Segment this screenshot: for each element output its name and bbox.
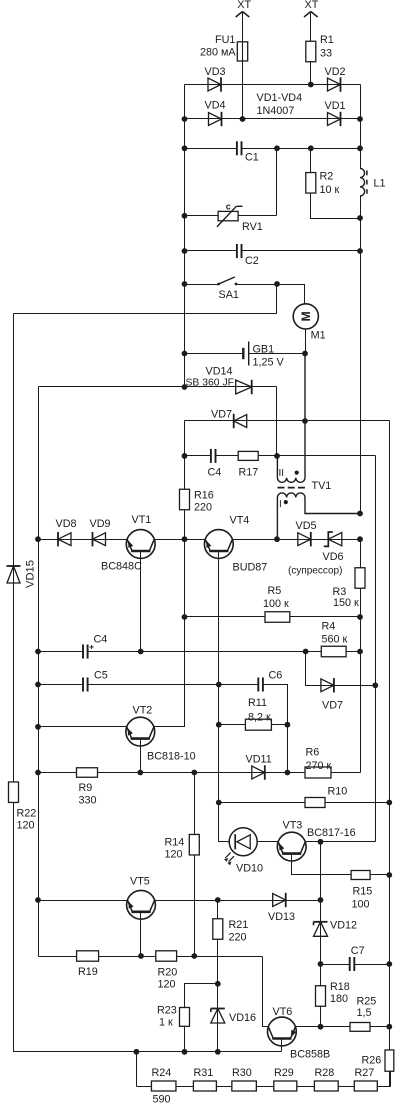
- junction L1 bottom: [357, 215, 363, 221]
- wire R2 bottom lead: [311, 194, 361, 219]
- wire R4 to VD7-2: [306, 652, 376, 686]
- junction FU1-row2: [240, 116, 246, 122]
- transformer TV1 core: [278, 487, 306, 489]
- wire R9 row: [39, 772, 305, 774]
- wire VD14 row: [39, 386, 277, 388]
- svg-text:270 к: 270 к: [306, 760, 332, 772]
- wire C4 row left: [185, 455, 211, 457]
- svg-text:FU1: FU1: [215, 34, 235, 46]
- diode VD16: [211, 1009, 225, 1024]
- svg-text:VT3: VT3: [283, 819, 303, 831]
- transistor VT5: [127, 890, 156, 919]
- svg-text:XT: XT: [305, 0, 319, 11]
- wire VT6 collector: [296, 1026, 321, 1028]
- wire row2: [185, 118, 361, 120]
- resistor R21: [213, 919, 223, 940]
- junction C2 left: [182, 248, 188, 254]
- resistor R20: [156, 951, 177, 961]
- junction R14 top: [191, 770, 197, 776]
- resistor R14: [189, 834, 199, 855]
- junction row2 left rail: [182, 116, 188, 122]
- svg-text:180: 180: [330, 993, 348, 1005]
- svg-text:VD2: VD2: [325, 66, 346, 78]
- resistor R30: [232, 1081, 257, 1091]
- svg-text:VT5: VT5: [130, 875, 150, 887]
- junction VT1 collector rail: [182, 536, 188, 542]
- svg-text:(супрессор): (супрессор): [288, 566, 342, 577]
- svg-text:R4: R4: [322, 620, 336, 632]
- wire right rail 389: [389, 421, 391, 1087]
- junction VT4 base-C6: [216, 682, 222, 688]
- wire R19-R20: [99, 956, 156, 958]
- capacitor C7: [350, 957, 355, 971]
- svg-text:R15: R15: [353, 885, 373, 897]
- junction RV1 left: [182, 213, 188, 219]
- svg-text:120: 120: [165, 848, 183, 860]
- svg-text:GB1: GB1: [253, 343, 275, 355]
- resistor R25: [350, 1023, 370, 1032]
- resistor R31: [193, 1081, 216, 1091]
- wire bottom distribution row: [14, 1051, 282, 1053]
- svg-text:C6: C6: [269, 669, 283, 681]
- wire VT2 collector: [154, 540, 185, 727]
- svg-text:M1: M1: [311, 329, 326, 341]
- svg-text:590: 590: [153, 1093, 171, 1105]
- junction VT2 left rail: [35, 724, 41, 730]
- svg-text:R27: R27: [355, 1067, 375, 1079]
- svg-text:C5: C5: [94, 669, 108, 681]
- junction VD7-2 rail375: [372, 682, 378, 688]
- junction VT4 collector node: [274, 536, 280, 542]
- wire row1: [185, 84, 361, 86]
- svg-text:VD6: VD6: [323, 551, 344, 563]
- svg-text:TV1: TV1: [312, 480, 332, 492]
- resistor R22: [9, 782, 19, 803]
- svg-text:R26: R26: [362, 1054, 382, 1066]
- wire VT4 base to R10: [218, 685, 220, 803]
- varistor RV1: [217, 206, 243, 227]
- svg-text:VD5: VD5: [296, 520, 317, 532]
- svg-text:R16: R16: [194, 489, 214, 501]
- svg-text:R10: R10: [328, 785, 348, 797]
- junction C4-2 left rail: [35, 649, 41, 655]
- wire R6 right riser: [332, 772, 361, 774]
- wire rail2 to R19: [39, 956, 77, 958]
- svg-text:BUD87: BUD87: [233, 562, 268, 574]
- diode VD1: [328, 112, 341, 126]
- wire right rail to R3: [360, 540, 362, 569]
- resistor R28: [314, 1081, 338, 1091]
- transformer TV1 phase dot I: [284, 500, 288, 504]
- wire C1 row left: [185, 148, 237, 150]
- junction R25 right rail: [386, 1024, 392, 1030]
- junction VT3 collector: [318, 839, 324, 845]
- svg-text:120: 120: [17, 819, 35, 831]
- svg-text:VD11: VD11: [246, 753, 272, 765]
- transistor VT1: [126, 530, 155, 559]
- junction VT5 base row: [138, 953, 144, 959]
- wire GB1 left: [185, 353, 244, 355]
- svg-text:R28: R28: [315, 1067, 335, 1079]
- svg-text:R19: R19: [78, 966, 98, 978]
- wire XT2 to R1: [310, 12, 312, 42]
- svg-text:330: 330: [79, 794, 97, 806]
- diode VD13: [273, 893, 286, 907]
- diode VD7: [234, 414, 247, 428]
- wire M1 to GB1 row: [305, 329, 307, 354]
- junction VD7-M1 riser: [302, 418, 308, 424]
- junction R23 feed: [215, 981, 221, 987]
- wire VT5 row left: [39, 900, 128, 902]
- junction SA1 left: [182, 281, 188, 287]
- svg-text:R29: R29: [274, 1067, 294, 1079]
- resistor R6: [305, 767, 331, 778]
- wire VT5-VD13: [155, 900, 321, 902]
- svg-text:VD16: VD16: [229, 1012, 256, 1024]
- transformer TV1 winding I: [277, 493, 360, 539]
- svg-text:R18: R18: [330, 981, 350, 993]
- transistor VT6: [268, 1017, 297, 1046]
- wire RV1 row: [185, 215, 277, 217]
- diode VD2: [328, 77, 341, 91]
- svg-text:L1: L1: [374, 177, 386, 189]
- wire R10 row: [219, 802, 390, 804]
- svg-text:XT: XT: [237, 0, 251, 11]
- capacitor C4 electrolytic: [83, 645, 88, 659]
- svg-text:33: 33: [320, 48, 332, 60]
- svg-text:1,5: 1,5: [357, 1007, 372, 1019]
- svg-text:II: II: [279, 468, 285, 479]
- svg-text:220: 220: [194, 501, 212, 513]
- svg-text:VD1-VD4: VD1-VD4: [257, 92, 303, 104]
- wire R21 top lead: [217, 901, 219, 919]
- wire right rail below L1: [360, 196, 362, 514]
- junction R5 right rail: [357, 614, 363, 620]
- capacitor C4 polarity: [90, 645, 94, 649]
- wire SA1 feed: [14, 285, 277, 314]
- wire R15 right: [371, 874, 390, 876]
- junction row2 right rail: [357, 116, 363, 122]
- svg-text:SB 360 JF: SB 360 JF: [186, 377, 235, 388]
- wire FU1 to row2: [242, 61, 244, 119]
- battery GB1: [243, 342, 248, 366]
- wire R18 bottom lead: [320, 1007, 322, 1027]
- wire R16 to transistor row: [184, 510, 186, 727]
- wire R24 drop: [136, 1052, 138, 1087]
- wire R17 right: [259, 455, 376, 457]
- wire VT4-VD5-VD6: [233, 539, 361, 541]
- wire R14 top lead: [194, 773, 196, 835]
- transistor VT2: [126, 717, 155, 746]
- wire R2 top lead: [310, 149, 312, 173]
- wire RV1 riser: [276, 149, 278, 216]
- transformer TV1 phase dot II: [295, 471, 299, 475]
- junction rail2-VD8 row: [35, 536, 41, 542]
- svg-text:R14: R14: [165, 836, 185, 848]
- wire R26 riser: [390, 1072, 392, 1087]
- svg-text:C4: C4: [208, 466, 222, 478]
- svg-text:R24: R24: [152, 1067, 172, 1079]
- junction R10 right rail: [386, 800, 392, 806]
- junction VT2 base row: [137, 770, 143, 776]
- resistor R19: [77, 951, 99, 961]
- resistor R26: [385, 1050, 394, 1071]
- capacitor C1: [237, 141, 242, 155]
- junction C1-R2 node: [308, 145, 314, 151]
- fuse FU1: [237, 42, 247, 61]
- wire VT1 base: [140, 551, 142, 652]
- junction C4 left: [182, 453, 188, 459]
- diode VD6 suppressor: [324, 532, 342, 546]
- wire R25 right: [371, 1026, 390, 1028]
- junction C5 left rail: [35, 682, 41, 688]
- svg-text:R31: R31: [194, 1067, 214, 1079]
- resistor R9: [77, 768, 98, 778]
- wire left rail 1 upper: [13, 314, 15, 783]
- junction VD6 right rail: [357, 536, 363, 542]
- svg-text:VT4: VT4: [230, 514, 250, 526]
- wire R5 row left: [185, 616, 265, 618]
- wire R18 top lead: [320, 965, 322, 987]
- svg-text:C2: C2: [245, 255, 259, 267]
- junction R11 right: [285, 722, 291, 728]
- svg-text:VD10: VD10: [236, 862, 263, 874]
- svg-text:1,25 V: 1,25 V: [253, 357, 285, 369]
- svg-text:с: с: [226, 201, 231, 211]
- svg-text:VT1: VT1: [132, 514, 152, 526]
- junction SA1 right: [274, 281, 280, 287]
- svg-text:8,2 к: 8,2 к: [248, 711, 271, 723]
- resistor R17: [238, 451, 258, 460]
- wire R5 row right: [290, 616, 361, 618]
- inductor L1 core: [366, 171, 368, 196]
- wire SA1 to M1: [277, 285, 305, 304]
- wire VT4 base: [218, 551, 220, 685]
- resistor R23: [180, 1008, 190, 1027]
- wire VD10-VT3: [258, 841, 278, 843]
- wire VT5 base: [140, 912, 142, 957]
- junction VD13 right: [318, 897, 324, 903]
- transformer TV1 winding II: [277, 354, 305, 483]
- motor M1: [293, 304, 318, 329]
- junction R15 right rail: [386, 872, 392, 878]
- svg-text:VD3: VD3: [205, 66, 226, 78]
- wire VT1-VT4: [155, 539, 206, 541]
- inductor L1: [360, 168, 365, 196]
- wire R23 feed: [185, 984, 218, 1008]
- svg-text:R25: R25: [357, 995, 377, 1007]
- svg-text:BC848C: BC848C: [101, 560, 142, 572]
- junction winding I right: [357, 511, 363, 517]
- diode VD9: [93, 532, 106, 546]
- junction VD14 left rail: [182, 384, 188, 390]
- capacitor C6: [258, 678, 263, 692]
- junction R10 left: [216, 800, 222, 806]
- resistor R24: [151, 1081, 176, 1091]
- junction VT5 left rail: [35, 897, 41, 903]
- wire VD7 row: [185, 420, 390, 422]
- wire bottom chain: [137, 1086, 391, 1088]
- diode VD8: [58, 532, 71, 546]
- wire VT2 base: [140, 739, 142, 773]
- resistor R29: [274, 1081, 297, 1091]
- junction R9 left rail: [35, 770, 41, 776]
- wire C7 row right: [355, 964, 390, 966]
- wire left rail 1 lower: [14, 803, 137, 1052]
- resistor R15: [351, 871, 370, 880]
- wire R4 right: [347, 651, 361, 653]
- svg-text:R30: R30: [232, 1067, 252, 1079]
- diode VD3: [208, 77, 221, 91]
- svg-text:R22: R22: [17, 807, 37, 819]
- junction C1 left: [182, 145, 188, 151]
- junction C4 right: [274, 453, 280, 459]
- resistor R4: [321, 646, 346, 657]
- wire SA1 right: [237, 284, 277, 286]
- svg-text:C1: C1: [245, 152, 259, 164]
- svg-text:100: 100: [352, 898, 370, 910]
- diode VD12: [314, 922, 328, 937]
- svg-text:SA1: SA1: [219, 289, 239, 301]
- capacitor C5: [83, 678, 88, 692]
- wire R26 top lead: [389, 1027, 391, 1051]
- junction VD13 left: [215, 897, 221, 903]
- wire R21 bottom lead: [217, 940, 219, 1052]
- junction R23 bottom: [182, 1049, 188, 1055]
- diode VD4: [209, 112, 222, 126]
- wire mid rail lower: [184, 421, 186, 490]
- svg-text:VD7: VD7: [322, 700, 343, 712]
- wire VD14 drop: [276, 387, 278, 456]
- wire R25 row left: [321, 1026, 351, 1028]
- svg-text:M: M: [299, 311, 313, 321]
- resistor R2: [306, 173, 316, 194]
- wire left rail top section: [184, 85, 186, 387]
- svg-text:R20: R20: [158, 966, 178, 978]
- junction VD12-C7: [318, 961, 324, 967]
- wire R23 bottom: [184, 1027, 186, 1052]
- diode VD14: [236, 380, 252, 394]
- svg-text:120: 120: [158, 978, 176, 990]
- wire VT6 base: [281, 1038, 283, 1052]
- junction VD11 right: [285, 770, 291, 776]
- svg-text:R11: R11: [248, 697, 267, 709]
- junction C2 right: [357, 248, 363, 254]
- svg-text:R5: R5: [268, 585, 282, 597]
- junction C1-RV1 node: [274, 145, 280, 151]
- svg-text:220: 220: [229, 931, 247, 943]
- wire C4-2 row left: [39, 651, 83, 653]
- wire C5-C6: [88, 684, 259, 686]
- wire VT3 base to R15: [292, 853, 352, 875]
- diode VD5: [298, 532, 311, 546]
- junction R4 right rail: [357, 649, 363, 655]
- svg-text:VT6: VT6: [273, 1006, 293, 1018]
- svg-text:RV1: RV1: [242, 221, 263, 233]
- junction C7 right rail: [386, 961, 392, 967]
- resistor R1: [306, 41, 316, 62]
- wire VT2 row left: [39, 726, 127, 728]
- wire C6 right drop: [263, 685, 288, 725]
- wire VD8 row: [39, 539, 127, 541]
- wire C2 row left: [185, 250, 237, 252]
- junction R4 left: [303, 649, 309, 655]
- svg-text:VD15: VD15: [25, 560, 37, 588]
- wire C1 row right: [242, 148, 361, 150]
- svg-text:BC818-10: BC818-10: [147, 750, 196, 762]
- capacitor C4: [211, 449, 216, 463]
- resistor R3: [355, 568, 365, 589]
- junction C1 right rail: [357, 145, 363, 151]
- led VD10: [224, 828, 257, 866]
- svg-text:BC858B: BC858B: [290, 1048, 330, 1060]
- wire rail 360 R5-R4: [360, 617, 362, 652]
- wire SA1 left: [185, 284, 219, 286]
- svg-text:R6: R6: [306, 746, 320, 758]
- svg-text:R17: R17: [239, 466, 259, 478]
- svg-text:1N4007: 1N4007: [257, 105, 295, 117]
- junction VT1 base row: [138, 649, 144, 655]
- svg-text:VD14: VD14: [206, 365, 233, 377]
- wire rail 360 R4-R6: [360, 652, 362, 773]
- wire R14 bottom lead: [194, 856, 196, 957]
- svg-text:VD4: VD4: [205, 100, 226, 112]
- svg-text:R1: R1: [320, 34, 334, 46]
- junction R1-row1: [308, 82, 314, 88]
- svg-text:BC817-16: BC817-16: [307, 827, 356, 839]
- svg-text:10 к: 10 к: [320, 184, 340, 196]
- wire C4-2 row right: [88, 651, 322, 653]
- wire GB1 right: [249, 353, 305, 355]
- wire VT3 collector: [306, 841, 376, 843]
- wire C2 row right: [242, 250, 361, 252]
- terminal XT2 arrow: [304, 12, 318, 18]
- svg-text:VD12: VD12: [330, 920, 357, 932]
- wire C7 row left: [321, 964, 350, 966]
- junction VD16 bottom: [215, 1049, 221, 1055]
- svg-text:VD9: VD9: [90, 518, 111, 530]
- svg-text:C7: C7: [351, 945, 365, 957]
- transistor VT4: [204, 530, 233, 559]
- diode VD11: [252, 765, 265, 779]
- wire C5 row left: [39, 684, 83, 686]
- svg-text:VD8: VD8: [56, 518, 77, 530]
- svg-text:VD1: VD1: [325, 100, 346, 112]
- junction R5 left rail: [182, 614, 188, 620]
- svg-text:1 к: 1 к: [159, 1016, 173, 1028]
- wire R3 to R5 row: [360, 589, 362, 617]
- svg-text:I: I: [279, 499, 282, 510]
- resistor R18: [316, 986, 326, 1007]
- wire R10 to VD10: [219, 803, 230, 842]
- svg-text:R23: R23: [157, 1005, 177, 1017]
- resistor R5: [265, 612, 290, 623]
- svg-text:VD7: VD7: [211, 408, 232, 420]
- wire R11 row: [219, 724, 288, 726]
- wire XT1 to FU1: [242, 12, 244, 43]
- junction bottom-R24 drop: [134, 1049, 140, 1055]
- wire R11-VD11 drop: [287, 725, 289, 773]
- wire left rail 2: [38, 387, 40, 957]
- diode VD15: [7, 566, 21, 583]
- svg-text:R21: R21: [229, 919, 249, 931]
- junction VT6-R18: [318, 1024, 324, 1030]
- wire rail 375: [375, 456, 377, 842]
- resistor R11: [245, 719, 271, 730]
- svg-text:560 к: 560 к: [322, 633, 348, 645]
- transistor VT3: [277, 832, 306, 861]
- resistor R27: [354, 1081, 377, 1091]
